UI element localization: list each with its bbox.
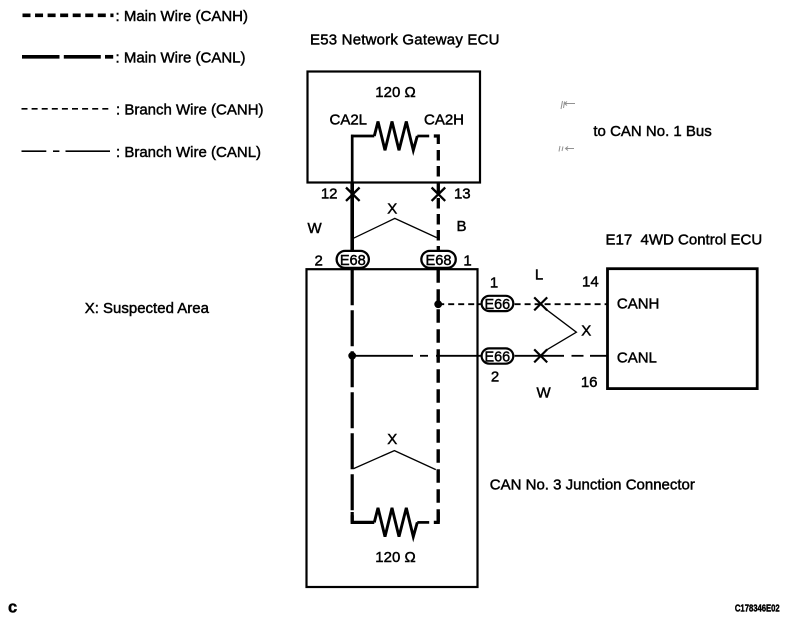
suspected-area X mark at pin 12 <box>346 188 360 201</box>
wire: branch CANH from junction to connector E66 (thin dashed) <box>438 303 481 305</box>
artifact: small arrow smudge (lower) <box>559 146 574 152</box>
artifact: small arrow smudge (upper) <box>561 101 575 109</box>
legend sample: main wire CANL (thick long-dash) <box>22 55 113 59</box>
node: CANH branch junction dot <box>434 300 442 308</box>
svg-text:16: 16 <box>581 374 598 391</box>
wire: main CANL vertical from R1 to connector E68 (left, solid) <box>351 135 354 183</box>
svg-text:CANH: CANH <box>617 295 660 312</box>
svg-text:E53 Network Gateway ECU: E53 Network Gateway ECU <box>310 32 500 49</box>
wire: main CANH vertical inside junction box (dashed) <box>437 269 440 522</box>
svg-text:1: 1 <box>490 275 498 292</box>
svg-text:12: 12 <box>321 186 338 203</box>
svg-text:W: W <box>537 385 552 402</box>
legend sample: branch wire CANL (thin dash-dot) <box>22 150 111 152</box>
ECU E17 box <box>608 269 758 389</box>
svg-text:: Main Wire (CANH): : Main Wire (CANH) <box>116 8 249 25</box>
svg-text:C178346E02: C178346E02 <box>735 604 780 615</box>
wire: main CANL vertical inside junction box (long-dash) <box>351 269 354 522</box>
suspected-area X mark at pin 13 <box>432 188 446 201</box>
svg-text:14: 14 <box>582 273 599 290</box>
resistor R2 (terminating resistor in junction box) <box>352 508 438 537</box>
svg-text:X: Suspected Area: X: Suspected Area <box>85 300 210 317</box>
svg-text:120 Ω: 120 Ω <box>375 549 415 566</box>
svg-text:L: L <box>535 267 543 284</box>
svg-text:120 Ω: 120 Ω <box>375 84 415 101</box>
wire: main CANH vertical from R1 to connector E68 (right, dashed) <box>437 150 440 250</box>
connector E66 (upper oval, pin 1) <box>482 296 514 311</box>
pointer lines to suspected branches (right) <box>547 310 576 349</box>
svg-text:c: c <box>8 599 17 617</box>
pointer lines to suspected wires (lower) <box>354 451 436 470</box>
svg-text:to CAN No. 1 Bus: to CAN No. 1 Bus <box>593 123 711 140</box>
junction connector box (CAN No. 3) <box>307 269 478 587</box>
svg-text:CAN No. 3 Junction Connector: CAN No. 3 Junction Connector <box>490 476 695 493</box>
svg-text:CANL: CANL <box>617 350 657 367</box>
svg-text:2: 2 <box>491 368 499 385</box>
svg-text:: Main Wire (CANL): : Main Wire (CANL) <box>116 49 246 66</box>
svg-text:E17 4WD Control ECU: E17 4WD Control ECU <box>606 231 763 248</box>
svg-text:W: W <box>308 220 323 237</box>
wire: branch CANH from E66 to E17 (thin dashed) <box>515 303 608 305</box>
svg-text:E66: E66 <box>484 297 510 313</box>
wire: branch CANL from junction to connector E66 (thin dash-dot) <box>352 355 481 357</box>
wire: branch CANL from E66 to E17 (thin dash-dot) <box>515 355 608 357</box>
svg-text:1: 1 <box>463 252 471 269</box>
legend sample: branch wire CANH (thin dashed) <box>22 108 113 110</box>
resistor R1 (terminating resistor inside E53) <box>351 122 438 151</box>
pointer lines to suspected wires (upper) <box>353 218 437 238</box>
ECU E53 box <box>308 72 481 183</box>
suspected-area X mark on CANL branch <box>534 349 547 362</box>
svg-text:E68: E68 <box>426 253 452 269</box>
suspected-area X mark on CANH branch <box>534 297 547 310</box>
svg-text:CA2H: CA2H <box>424 112 464 129</box>
svg-text:13: 13 <box>454 186 471 203</box>
svg-text:E68: E68 <box>340 253 366 269</box>
connector E68 (right oval, pin 1) <box>421 251 455 268</box>
node: CANL branch junction dot <box>348 352 356 360</box>
connector E66 (lower oval, pin 2) <box>482 348 514 363</box>
svg-text:: Branch Wire (CANH): : Branch Wire (CANH) <box>116 101 264 118</box>
svg-text:E66: E66 <box>484 349 510 365</box>
connector E68 (left oval, pin 2) <box>337 251 369 268</box>
svg-text:X: X <box>581 323 591 340</box>
svg-text:2: 2 <box>315 252 323 269</box>
svg-text:: Branch Wire (CANL): : Branch Wire (CANL) <box>116 144 261 161</box>
svg-text:CA2L: CA2L <box>330 112 368 129</box>
svg-text:X: X <box>387 200 397 217</box>
svg-text:B: B <box>457 218 467 235</box>
legend sample: main wire CANH (thick dashed) <box>23 13 114 17</box>
svg-text:X: X <box>387 431 397 448</box>
